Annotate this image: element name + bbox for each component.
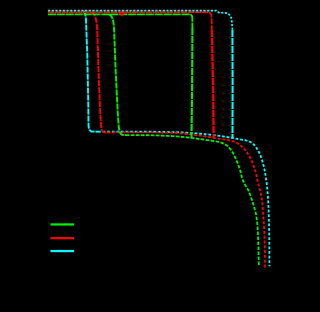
curve green upper plateau — [48, 14, 192, 30]
curve cyan left drop — [83, 11, 98, 132]
curve green lower suppressed curve + right falloff — [126, 135, 259, 266]
legend line green — [51, 223, 75, 225]
curve cyan right drop — [231, 30, 233, 139]
curve green left drop — [109, 14, 126, 135]
curve cyan lower suppressed curve + right falloff — [98, 132, 269, 267]
curve cyan upper plateau — [48, 11, 232, 32]
curve red lower suppressed curve + right falloff — [110, 132, 265, 268]
curve green right drop — [190, 28, 193, 138]
curve red right drop — [212, 30, 214, 137]
curve red left drop — [91, 12, 110, 132]
red notch marker — [119, 12, 125, 16]
legend line cyan — [51, 250, 75, 252]
legend line red — [51, 237, 75, 239]
curve red upper plateau — [48, 12, 212, 32]
